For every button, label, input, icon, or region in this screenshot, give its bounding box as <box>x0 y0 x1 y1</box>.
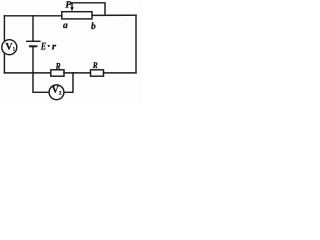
wire from voltmeter V2 right up to junction between resistors <box>64 73 73 92</box>
wire right border vertical <box>135 15 137 73</box>
voltmeter V1 body circle <box>2 40 17 55</box>
resistor R (right) body <box>91 70 104 76</box>
wire battery branch lower from battery down to bottom node <box>32 47 34 73</box>
wire voltmeter V2 branch: down from bottom node and right to V2 <box>33 73 49 92</box>
wire bottom left segment from resistor R1 to left border <box>4 72 50 74</box>
wire battery branch upper from top node down to battery <box>32 16 34 42</box>
svg-text:R: R <box>55 61 61 72</box>
wire bottom right segment from right border to resistor R2 <box>104 72 137 74</box>
potentiometer P body <box>62 12 92 19</box>
svg-text:E·r: E·r <box>40 41 56 53</box>
battery E short thick negative plate <box>30 45 36 47</box>
svg-text:R: R <box>92 60 98 70</box>
wire left border vertical through voltmeter V1 <box>3 16 5 73</box>
wire from potentiometer terminal b to right border <box>92 14 136 16</box>
wire top left horizontal from node at left border to potentiometer terminal a <box>4 15 61 17</box>
svg-text:b: b <box>91 22 96 32</box>
potentiometer P wiper arrow shaft <box>71 3 73 9</box>
wire wiper loop from arrow up, right, down to main wire <box>72 3 105 16</box>
svg-text:P: P <box>65 0 71 10</box>
svg-text:a: a <box>63 21 68 31</box>
battery E long positive plate <box>27 40 40 42</box>
resistor R (left) body <box>51 70 64 76</box>
potentiometer P wiper arrowhead <box>70 7 74 11</box>
wire between the two resistors with junction to voltmeter V2 branch <box>64 72 91 74</box>
voltmeter V2 body circle <box>49 85 64 100</box>
